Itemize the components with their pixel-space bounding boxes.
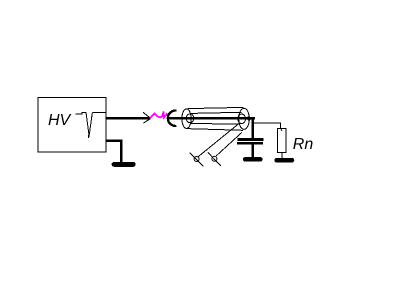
pulse waveform inside HV box [76,112,106,137]
slash through probe 1 [190,153,204,167]
resistor Rn body [277,129,286,153]
arrowhead at end of wire [143,112,151,123]
electrode (cup) of spark gap [168,111,177,126]
slash through probe 2 [208,152,221,166]
wire from HV box to ground [106,141,121,163]
wire from capacitor to ground [251,145,254,158]
probe terminal circle 2 [212,156,217,161]
pointer line from inner conductor [198,123,239,156]
capacitor bottom plate [237,142,263,145]
HV source box U1 [38,98,106,153]
spark (discharge) [150,111,168,118]
wire from junction to resistor Rn [253,123,281,128]
center conductor wire through coaxial chamber [169,117,255,119]
ground under capacitor [245,157,260,162]
coaxial chamber right inner ellipse [238,114,246,124]
coaxial chamber left inner ellipse [186,114,194,123]
wire from HV box output to spark gap [106,117,150,120]
capacitor top plate [238,138,264,141]
pointer line from outer shell [216,132,242,156]
probe terminal circle 1 [194,157,199,162]
cylinder bottom outer wall [186,129,243,131]
svg-text:Rn: Rn [293,136,314,153]
junction dot at right end of conductor [247,116,251,120]
ground under HV box [114,162,133,167]
wire from junction down to capacitor [251,118,254,138]
cylinder top inner wall [191,112,242,113]
cylinder bottom inner wall [190,122,240,125]
wire from resistor to ground [281,153,283,159]
coaxial chamber right outer ellipse [239,108,250,129]
cylinder top outer wall [188,107,243,108]
coaxial chamber left outer ellipse [182,109,191,129]
ground under resistor [277,158,292,163]
wire overshoot tick into resistor [281,129,283,131]
svg-text:HV: HV [48,112,72,129]
